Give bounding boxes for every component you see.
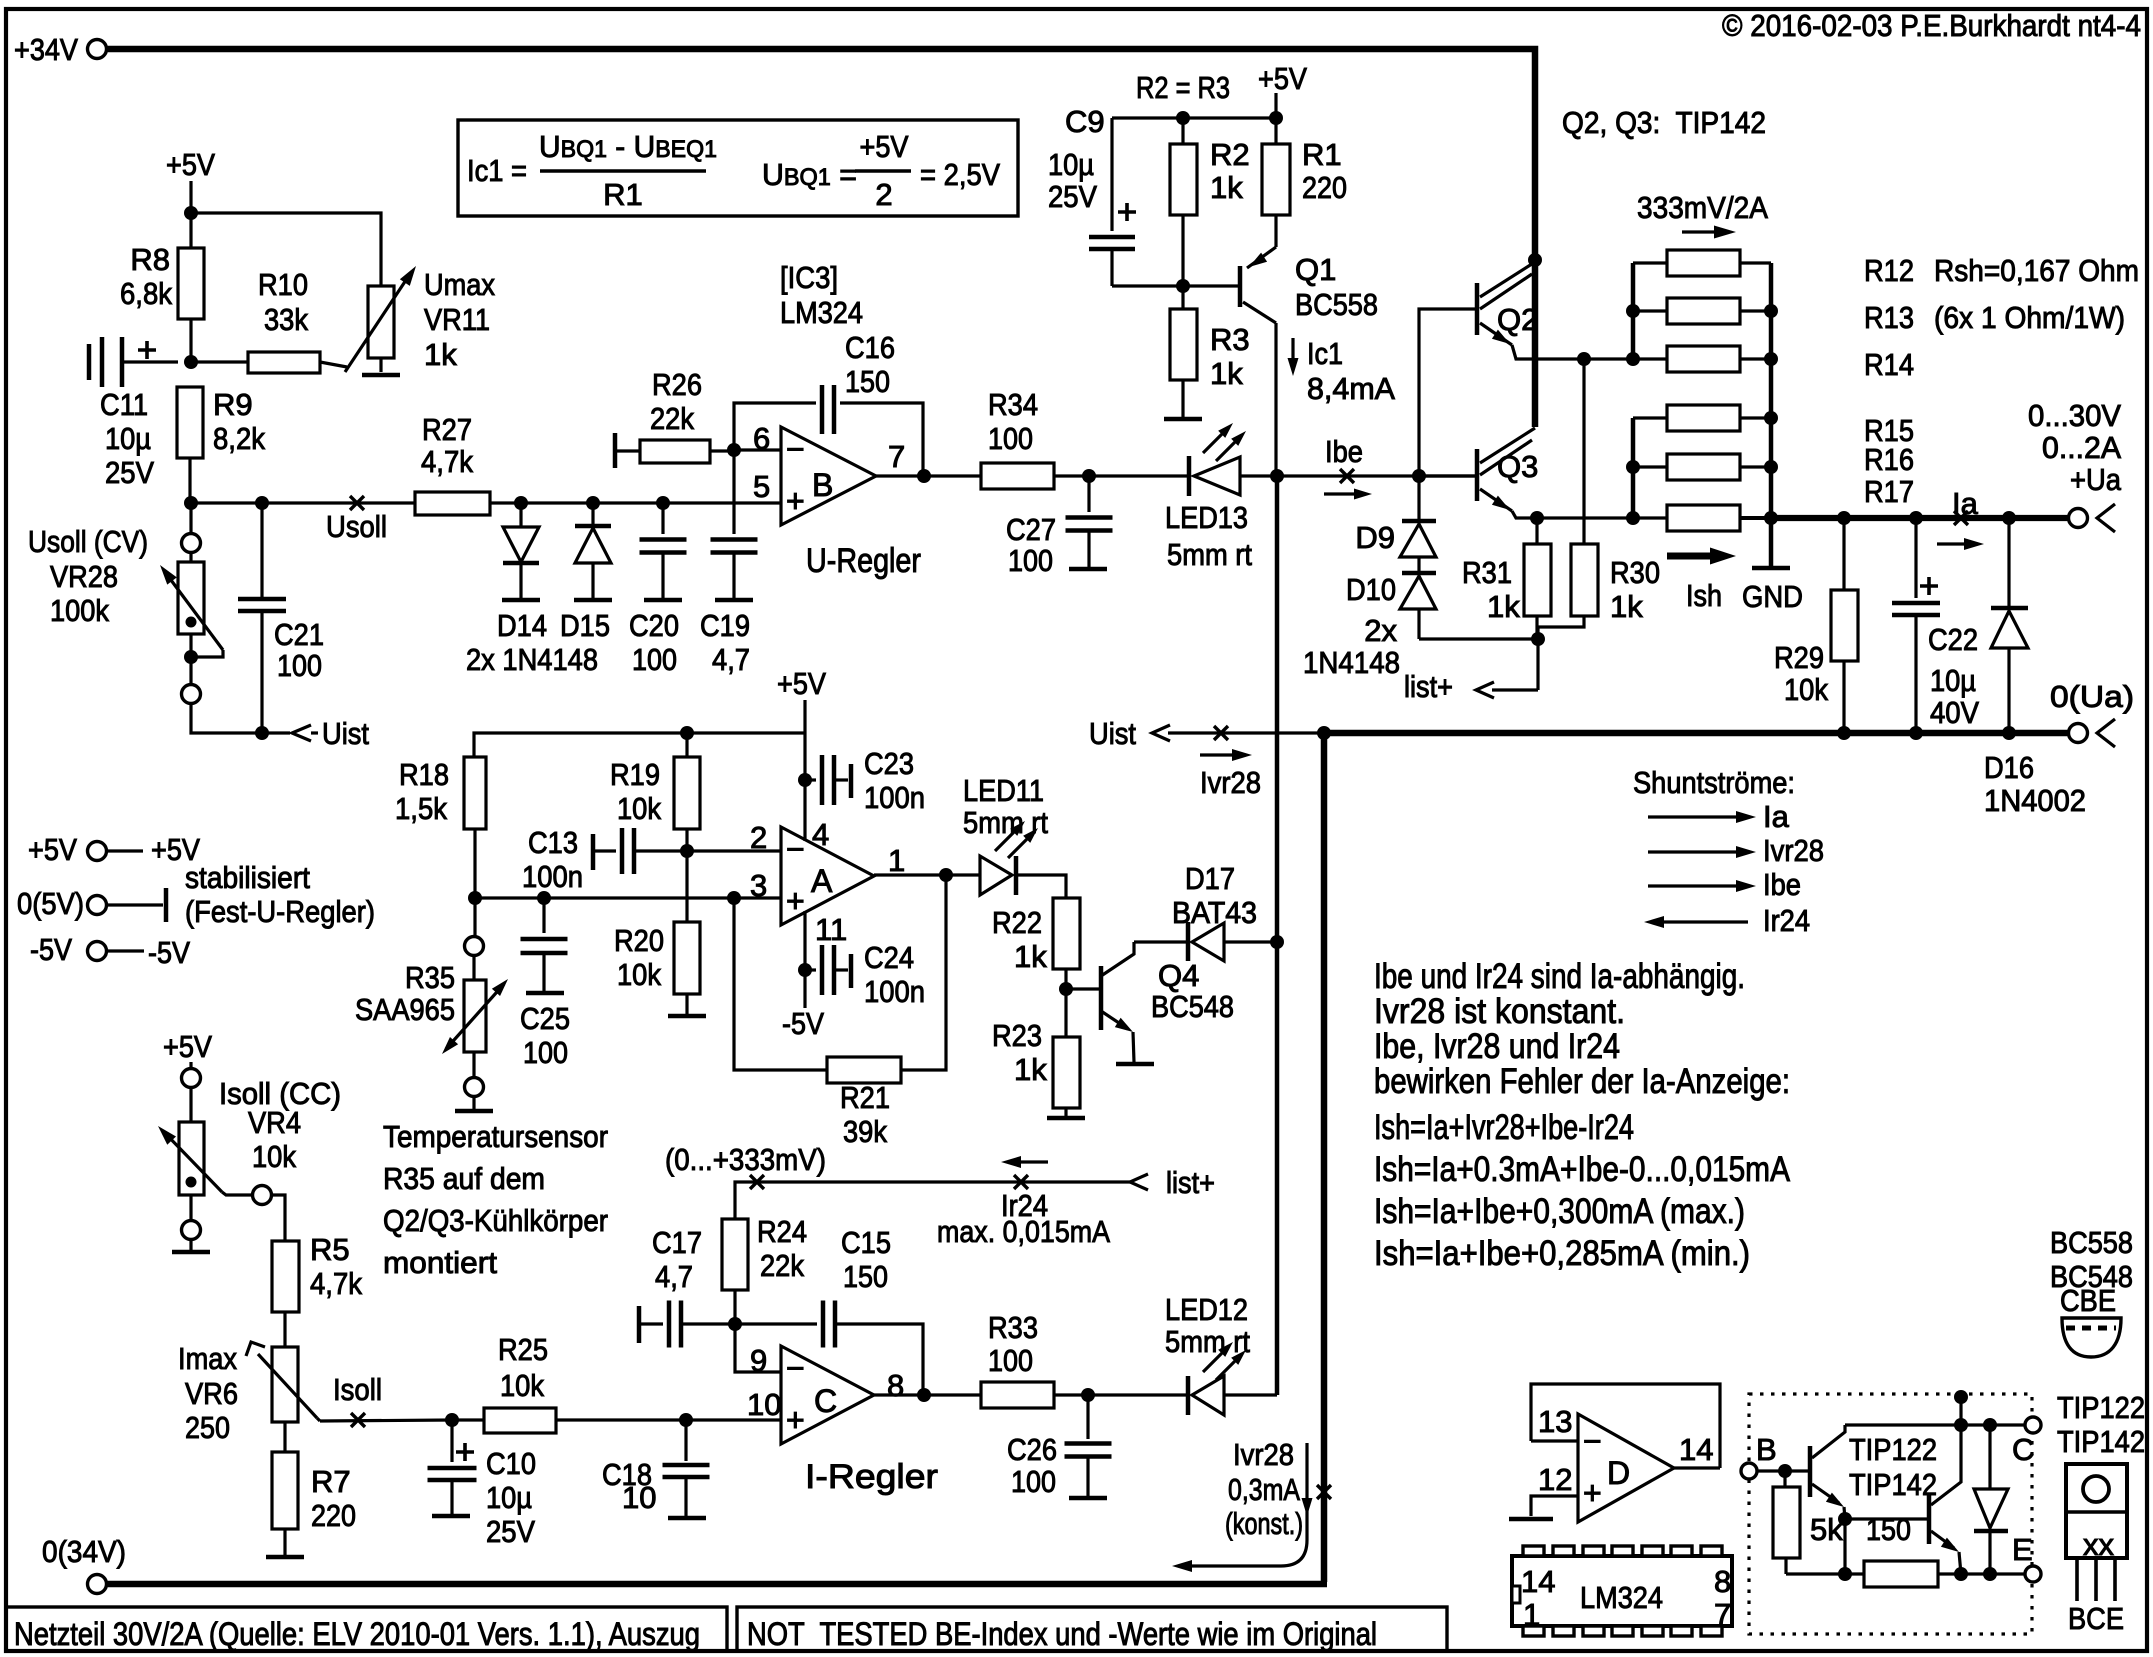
- svg-text:100: 100: [988, 421, 1033, 456]
- svg-text:R13: R13: [1864, 300, 1914, 335]
- capacitor C16 feedback: [734, 403, 816, 450]
- svg-text:BAT43: BAT43: [1172, 895, 1257, 930]
- terminal E: [2025, 1566, 2041, 1582]
- terminal C: [2025, 1417, 2041, 1433]
- wire +5V rail opamp A: [474, 733, 805, 757]
- resistor R10: [191, 360, 248, 363]
- svg-text:333mV/2A: 333mV/2A: [1637, 190, 1768, 225]
- svg-text:R35: R35: [405, 960, 455, 995]
- node bus Uist: [1317, 726, 1331, 740]
- svg-text:(Fest-U-Regler): (Fest-U-Regler): [185, 894, 375, 929]
- wire Ibe: [1277, 474, 1477, 477]
- svg-text:100: 100: [523, 1035, 568, 1070]
- node opamp B output: [917, 469, 931, 483]
- svg-text:Ish=Ia+Ibe+0,300mA (max.): Ish=Ia+Ibe+0,300mA (max.): [1374, 1192, 1745, 1231]
- svg-text:100: 100: [1008, 543, 1053, 578]
- capacitor C27: [1087, 476, 1090, 512]
- resistor R22: [1053, 898, 1080, 969]
- svg-text:R25: R25: [498, 1332, 548, 1367]
- svg-text:Q3: Q3: [1497, 449, 1538, 484]
- svg-text:+: +: [1583, 1475, 1602, 1511]
- IC LM324 DIP package: [1512, 1556, 1732, 1626]
- capacitor C22: [1914, 518, 1917, 598]
- svg-text:1k: 1k: [1210, 170, 1243, 205]
- svg-text:100n: 100n: [522, 859, 583, 894]
- svg-text:8: 8: [1714, 1564, 1731, 1599]
- svg-text:100n: 100n: [864, 974, 925, 1009]
- svg-text:R7: R7: [311, 1464, 351, 1499]
- formula box: [458, 120, 1018, 216]
- svg-text:+5V: +5V: [166, 147, 215, 182]
- node Q2 emitter rail: [1577, 352, 1591, 366]
- svg-text:(0...+333mV): (0...+333mV): [665, 1142, 826, 1177]
- resistor R2: [1170, 144, 1197, 215]
- node list+: [1531, 632, 1545, 646]
- svg-text:D15: D15: [560, 608, 610, 643]
- svg-text:33k: 33k: [264, 302, 308, 337]
- svg-text:Imax: Imax: [178, 1341, 237, 1376]
- svg-text:−: −: [1583, 1423, 1602, 1459]
- svg-text:Ic1: Ic1: [1307, 336, 1343, 371]
- svg-text:150: 150: [1866, 1512, 1911, 1547]
- diode D17 BAT43: [1134, 940, 1186, 943]
- svg-text:R17: R17: [1864, 474, 1914, 509]
- node D14: [514, 496, 528, 510]
- svg-text:100k: 100k: [50, 593, 109, 628]
- wire Q3 base: [1419, 474, 1477, 477]
- terminal 0(Ua): [2069, 724, 2088, 743]
- svg-text:220: 220: [1302, 170, 1347, 205]
- resistor R9: [177, 387, 203, 458]
- svg-text:1k: 1k: [1610, 589, 1643, 624]
- wire +5V stub: [189, 181, 192, 213]
- svg-text:R21: R21: [840, 1080, 890, 1115]
- svg-text:-5V: -5V: [30, 932, 72, 967]
- node opamp A output: [939, 868, 953, 882]
- svg-text:TIP122: TIP122: [1849, 1432, 1937, 1467]
- svg-text:LM324: LM324: [780, 295, 863, 330]
- wire +34V bus: [107, 49, 1535, 427]
- svg-text:C24: C24: [864, 940, 914, 975]
- capacitor C15: [735, 1322, 817, 1325]
- svg-text:R26: R26: [652, 367, 702, 402]
- svg-text:LED13: LED13: [1165, 500, 1248, 535]
- resistor R24: [722, 1219, 748, 1290]
- svg-text:C21: C21: [274, 617, 324, 652]
- svg-text:+5V: +5V: [860, 129, 909, 164]
- svg-text:R29: R29: [1774, 640, 1824, 675]
- svg-text:22k: 22k: [760, 1248, 804, 1283]
- svg-text:C25: C25: [520, 1001, 570, 1036]
- resistor R17: [1633, 516, 1667, 519]
- diode D15: [591, 503, 594, 527]
- svg-text:Ibe und Ir24 sind Ia-abhängig.: Ibe und Ir24 sind Ia-abhängig.: [1374, 957, 1745, 996]
- capacitor C21: [260, 503, 263, 598]
- svg-text:Rsh=0,167 Ohm: Rsh=0,167 Ohm: [1934, 253, 2139, 288]
- svg-text:B: B: [1756, 1432, 1777, 1467]
- node C10: [445, 1413, 459, 1427]
- op-amp U1C LM324 I-Regler: [781, 1346, 874, 1444]
- svg-text:10k: 10k: [252, 1139, 296, 1174]
- svg-text:−: −: [786, 831, 805, 867]
- svg-text:100n: 100n: [864, 780, 925, 815]
- node box top: [1954, 1390, 1968, 1404]
- svg-text:Shuntströme:: Shuntströme:: [1633, 765, 1795, 800]
- svg-text:4,7: 4,7: [712, 642, 750, 677]
- svg-text:C16: C16: [845, 330, 895, 365]
- node C20: [656, 496, 670, 510]
- node C25: [537, 891, 551, 905]
- svg-text:= 2,5V: = 2,5V: [920, 157, 1000, 192]
- svg-text:R2: R2: [1210, 137, 1250, 172]
- svg-text:Ibe, Ivr28 und Ir24: Ibe, Ivr28 und Ir24: [1374, 1027, 1620, 1066]
- resistor R34: [981, 463, 1054, 489]
- svg-text:Q2: Q2: [1497, 302, 1538, 337]
- diode D14: [519, 503, 522, 527]
- resistor R30: [1571, 544, 1598, 616]
- capacitor C18: [684, 1420, 687, 1461]
- wire top distribution: [1112, 116, 1276, 119]
- svg-text:−: −: [786, 431, 805, 467]
- svg-text:Ibe: Ibe: [1325, 434, 1363, 469]
- node D16 bottom: [2002, 726, 2016, 740]
- svg-text:150: 150: [843, 1259, 888, 1294]
- svg-text:Ish=Ia+Ibe+0,285mA (min.): Ish=Ia+Ibe+0,285mA (min.): [1374, 1234, 1750, 1273]
- svg-text:R33: R33: [988, 1310, 1038, 1345]
- svg-text:C9: C9: [1065, 104, 1105, 139]
- svg-text:R30: R30: [1610, 555, 1660, 590]
- svg-text:LM324: LM324: [1580, 1580, 1663, 1615]
- resistor R31: [1535, 518, 1538, 544]
- node D16 top: [2002, 511, 2016, 525]
- svg-text:+Ua: +Ua: [2070, 462, 2122, 497]
- capacitor C19: [732, 450, 735, 534]
- potentiometer VR28: [189, 553, 192, 562]
- TO-92 package outline: [2062, 1318, 2121, 1357]
- svg-text:13: 13: [1538, 1404, 1572, 1439]
- svg-text:7: 7: [888, 439, 905, 474]
- current Ir24 arrow: [1001, 1156, 1021, 1168]
- svg-text:Usoll (CV): Usoll (CV): [28, 524, 148, 559]
- svg-text:R1: R1: [603, 177, 643, 212]
- svg-text:list+: list+: [1404, 669, 1453, 704]
- svg-text:5mm rt: 5mm rt: [1167, 537, 1252, 572]
- svg-text:R8: R8: [130, 242, 170, 277]
- svg-text:-5V: -5V: [782, 1006, 824, 1041]
- op-amp U1A LM324: [781, 827, 874, 925]
- wire Isoll row: [320, 1420, 452, 1421]
- svg-text:[IC3]: [IC3]: [780, 260, 838, 295]
- svg-text:1k: 1k: [1487, 589, 1520, 624]
- svg-text:Temperatursensor: Temperatursensor: [383, 1119, 608, 1154]
- svg-text:+34V: +34V: [14, 32, 78, 67]
- svg-text:Uist: Uist: [322, 716, 369, 751]
- emitter rail: [1786, 1572, 1864, 1575]
- temperature sensor R35 SAA965: [473, 898, 476, 936]
- svg-text:10µ: 10µ: [1930, 663, 1976, 698]
- node VR28 wiper: [184, 650, 198, 664]
- svg-text:CBE: CBE: [2060, 1283, 2116, 1318]
- capacitor C26: [1086, 1395, 1089, 1439]
- wire to VR11: [191, 213, 381, 286]
- node D17/LED line: [1270, 935, 1284, 949]
- svg-text:5mm rt: 5mm rt: [1165, 1324, 1250, 1359]
- resistor R14: [1633, 357, 1667, 360]
- node R8 top: [184, 206, 198, 220]
- capacitor C11: [87, 344, 92, 380]
- svg-text:14: 14: [1521, 1564, 1555, 1599]
- svg-text:LED11: LED11: [963, 773, 1044, 808]
- svg-text:BC558: BC558: [2050, 1225, 2133, 1260]
- resistor R27: [415, 492, 490, 515]
- svg-text:8: 8: [887, 1368, 904, 1403]
- transistor Q2 TIP142: [1475, 283, 1480, 335]
- svg-text:VR6: VR6: [185, 1376, 238, 1411]
- wire to Uist node: [191, 704, 290, 733]
- svg-text:10k: 10k: [500, 1368, 544, 1403]
- svg-text:22k: 22k: [650, 401, 694, 436]
- svg-text:39k: 39k: [843, 1114, 887, 1149]
- resistor R20: [674, 922, 700, 994]
- svg-text:C11: C11: [100, 387, 148, 422]
- wire pin6: [734, 448, 781, 451]
- svg-text:2: 2: [875, 177, 892, 212]
- transistor TIP driver: [1808, 1446, 1813, 1497]
- svg-text:1k: 1k: [1014, 939, 1047, 974]
- node Q2 collector: [1528, 253, 1542, 267]
- svg-text:−: −: [786, 1350, 805, 1386]
- svg-text:VR11: VR11: [424, 302, 490, 337]
- svg-text:4: 4: [812, 817, 829, 852]
- wire pin3 row: [475, 896, 781, 899]
- resistor R3: [1170, 309, 1197, 380]
- svg-text:220: 220: [311, 1498, 356, 1533]
- transistor TIP output: [1927, 1493, 1932, 1544]
- terminal VR4 bottom: [189, 1195, 192, 1220]
- capacitor C17: [637, 1306, 642, 1343]
- svg-text:0(5V): 0(5V): [17, 886, 84, 921]
- capacitor C23: [805, 778, 816, 781]
- svg-text:max. 0,015mA: max. 0,015mA: [937, 1214, 1110, 1249]
- svg-text:D: D: [1607, 1455, 1630, 1491]
- wire to R25: [452, 1418, 484, 1421]
- svg-text:25V: 25V: [105, 455, 154, 490]
- svg-text:1: 1: [1523, 1597, 1540, 1632]
- node B: [1778, 1464, 1792, 1478]
- bottom rail 0V: [107, 1581, 1327, 1588]
- potentiometer VR11: [368, 286, 394, 358]
- svg-text:1k: 1k: [1210, 356, 1243, 391]
- svg-text:Ivr28: Ivr28: [1200, 765, 1261, 800]
- svg-text:R34: R34: [988, 387, 1038, 422]
- svg-text:R14: R14: [1864, 347, 1914, 382]
- node C24: [798, 963, 812, 977]
- node R29 top: [1837, 511, 1851, 525]
- wire LED chain vertical: [1275, 476, 1280, 1395]
- svg-text:10: 10: [747, 1387, 781, 1422]
- node C11/R9: [184, 355, 198, 369]
- transistor Q4 BC548: [1099, 966, 1104, 1030]
- resistor R23: [1053, 1037, 1080, 1108]
- svg-text:R27: R27: [422, 412, 472, 447]
- list+ return wire: [735, 1182, 1130, 1219]
- resistor 150: [1864, 1561, 1938, 1587]
- svg-text:A: A: [811, 863, 833, 899]
- node R29 bottom: [1837, 726, 1851, 740]
- svg-text:7: 7: [1714, 1597, 1731, 1632]
- transistor Q3 TIP142: [1475, 449, 1480, 501]
- svg-text:D10: D10: [1346, 572, 1396, 607]
- svg-text:10k: 10k: [617, 791, 661, 826]
- svg-text:0(Ua): 0(Ua): [2050, 679, 2134, 714]
- svg-text:Ivr28: Ivr28: [1233, 1437, 1294, 1472]
- svg-text:10µ: 10µ: [1048, 147, 1094, 182]
- svg-text:TIP142: TIP142: [1849, 1467, 1937, 1502]
- svg-text:10k: 10k: [617, 957, 661, 992]
- svg-text:2x 1N4148: 2x 1N4148: [466, 642, 598, 677]
- svg-text:R18: R18: [399, 757, 449, 792]
- wire output to R34: [876, 474, 981, 477]
- svg-text:10µ: 10µ: [105, 421, 151, 456]
- svg-text:-5V: -5V: [148, 935, 190, 970]
- svg-text:C26: C26: [1007, 1432, 1057, 1467]
- svg-text:25V: 25V: [1048, 179, 1097, 214]
- svg-text:D16: D16: [1984, 750, 2034, 785]
- svg-text:Q1: Q1: [1295, 252, 1336, 287]
- node Q3 base: [1412, 469, 1426, 483]
- resistor R12: [1633, 261, 1667, 264]
- wire R30 top: [1582, 359, 1585, 544]
- diode internal: [1988, 1425, 1991, 1489]
- svg-text:stabilisiert: stabilisiert: [185, 860, 310, 895]
- svg-text:GND: GND: [1742, 579, 1803, 614]
- svg-text:+5V: +5V: [28, 832, 77, 867]
- svg-text:12: 12: [1538, 1462, 1572, 1497]
- svg-text:4,7: 4,7: [655, 1259, 693, 1294]
- capacitor C10: [450, 1420, 453, 1462]
- svg-text:C19: C19: [700, 608, 750, 643]
- svg-text:1,5k: 1,5k: [395, 791, 447, 826]
- resistor R26: [613, 433, 618, 468]
- svg-text:Ish=Ia+Ivr28+Ibe-Ir24: Ish=Ia+Ivr28+Ibe-Ir24: [1374, 1108, 1634, 1147]
- resistor R5: [272, 1241, 299, 1312]
- node D15: [586, 496, 600, 510]
- svg-text:TIP142: TIP142: [2057, 1424, 2145, 1459]
- current Ic1 arrow: [1291, 338, 1294, 366]
- wire pin9: [735, 1324, 781, 1372]
- svg-text:100: 100: [632, 642, 677, 677]
- svg-text:250: 250: [185, 1410, 230, 1445]
- svg-text:Q4: Q4: [1158, 958, 1199, 993]
- svg-text:U-Regler: U-Regler: [806, 542, 921, 580]
- current Ish arrow: [1667, 553, 1712, 560]
- svg-text:14: 14: [1679, 1432, 1713, 1467]
- svg-text:4,7k: 4,7k: [421, 444, 473, 479]
- potentiometer VR6: [272, 1347, 298, 1422]
- terminal B: [1741, 1463, 1757, 1479]
- resistor R33: [981, 1382, 1054, 1408]
- svg-text:10k: 10k: [1784, 672, 1828, 707]
- node C22 bottom: [1909, 726, 1923, 740]
- shunt right bus: [1769, 263, 1774, 566]
- LED11: [980, 856, 1012, 895]
- svg-text:NOT TESTED BE-Index und -Wert: NOT TESTED BE-Index und -Werte wie im Or…: [747, 1616, 1377, 1652]
- terminal Isoll (CC): [189, 1062, 192, 1068]
- wire Q2 base: [1419, 309, 1477, 476]
- output line +Ua: [1764, 511, 1778, 525]
- wire wiper to R5: [272, 1195, 285, 1241]
- svg-text:8,4mA: 8,4mA: [1307, 371, 1395, 406]
- resistor R13: [1633, 309, 1667, 312]
- svg-text:1N4148: 1N4148: [1303, 645, 1400, 680]
- ground GND: [1752, 566, 1790, 571]
- shunt left bus lower: [1631, 418, 1636, 518]
- shunt left bus upper: [1631, 263, 1636, 359]
- svg-text:0...30V: 0...30V: [2028, 398, 2121, 433]
- svg-text:montiert: montiert: [383, 1245, 497, 1280]
- svg-text:+: +: [786, 883, 805, 919]
- svg-text:Q2, Q3: TIP142: Q2, Q3: TIP142: [1562, 105, 1766, 140]
- svg-text:R5: R5: [310, 1232, 350, 1267]
- svg-text:Ir24: Ir24: [1763, 903, 1810, 938]
- node C26: [1081, 1388, 1095, 1402]
- svg-text:C20: C20: [629, 608, 679, 643]
- resistor R25: [484, 1408, 556, 1433]
- svg-text:R23: R23: [992, 1018, 1042, 1053]
- svg-text:(konst.): (konst.): [1225, 1506, 1303, 1541]
- svg-text:VR28: VR28: [50, 559, 118, 594]
- wire Usoll row: [191, 501, 415, 504]
- node LED13/Q1: [1270, 469, 1284, 483]
- node Q4 base: [1059, 982, 1073, 996]
- svg-text:C22: C22: [1928, 622, 1978, 657]
- svg-text:Ivr28 ist konstant.: Ivr28 ist konstant.: [1374, 992, 1625, 1031]
- svg-text:R20: R20: [614, 923, 664, 958]
- svg-text:list+: list+: [1166, 1165, 1215, 1200]
- svg-text:Uist: Uist: [1089, 716, 1136, 751]
- transistor Q1 BC558: [1238, 266, 1243, 307]
- svg-text:Ic1 =: Ic1 =: [467, 153, 527, 188]
- net Ivr28 arrow: [1200, 753, 1234, 756]
- collector rail: [1845, 1423, 2025, 1426]
- svg-text:Ish=Ia+0.3mA+Ibe-0...0,015mA: Ish=Ia+0.3mA+Ibe-0...0,015mA: [1374, 1150, 1791, 1189]
- wire +5V to R1: [1274, 93, 1277, 118]
- svg-text:Ibe: Ibe: [1763, 867, 1801, 902]
- terminal +34V: [88, 40, 107, 59]
- svg-text:R24: R24: [757, 1214, 807, 1249]
- wire D-row: [521, 501, 781, 504]
- svg-text:5: 5: [753, 469, 770, 504]
- svg-text:C23: C23: [864, 746, 914, 781]
- TO-220 package outline: [2066, 1464, 2127, 1558]
- svg-text:0...2A: 0...2A: [2042, 430, 2121, 465]
- resistor R18: [464, 757, 486, 829]
- svg-text:Umax: Umax: [424, 267, 495, 302]
- TIP122/TIP142 internal schematic dotted box: [1749, 1394, 2032, 1634]
- svg-text:100: 100: [1011, 1464, 1056, 1499]
- svg-text:C15: C15: [841, 1225, 891, 1260]
- node C13/R19: [680, 844, 694, 858]
- svg-text:+5V: +5V: [777, 666, 826, 701]
- node C22 top: [1909, 511, 1923, 525]
- svg-text:R35 auf dem: R35 auf dem: [383, 1161, 545, 1196]
- wire pin11 -5V: [803, 911, 806, 1008]
- resistor R19: [685, 733, 688, 757]
- capacitor C9: [1110, 118, 1113, 231]
- svg-text:C10: C10: [486, 1446, 536, 1481]
- svg-text:1: 1: [888, 843, 905, 878]
- svg-text:R3: R3: [1210, 322, 1250, 357]
